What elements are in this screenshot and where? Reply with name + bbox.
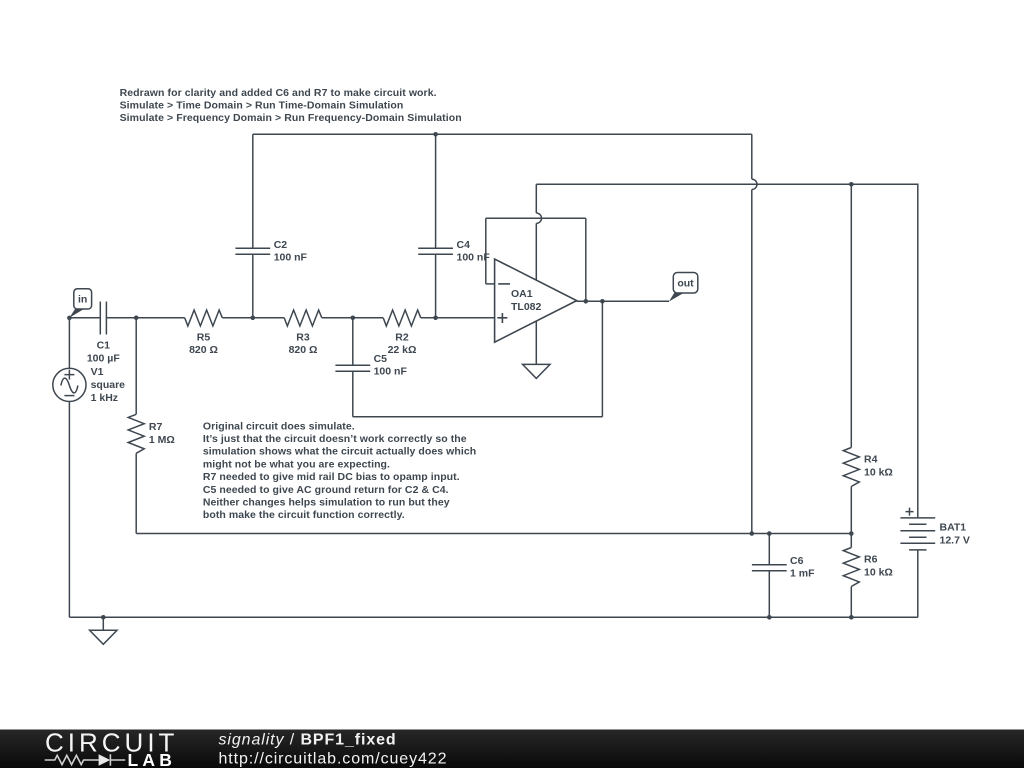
wire: C1 to R5 [106, 317, 184, 319]
wire: R4 to mid rail [850, 487, 852, 534]
svg-text:C1: C1 [97, 339, 111, 351]
svg-text:22 kΩ: 22 kΩ [388, 344, 417, 356]
svg-text:820 Ω: 820 Ω [289, 344, 318, 356]
junction R4 R6 mid rail [849, 531, 854, 536]
svg-text:out: out [677, 277, 694, 289]
svg-text:100 nF: 100 nF [374, 365, 408, 377]
svg-text:Simulate > Frequency Domain >: Simulate > Frequency Domain > Run Freque… [120, 112, 462, 124]
resistor R7 [128, 414, 144, 453]
junction C4 branch [433, 316, 438, 321]
svg-text:Neither changes helps simulati: Neither changes helps simulation to run … [203, 497, 450, 509]
svg-text:BAT1: BAT1 [940, 522, 967, 534]
resistor R5 [185, 310, 223, 326]
resistor R3 [284, 310, 322, 326]
svg-text:1 MΩ: 1 MΩ [149, 434, 175, 446]
svg-text:1 mF: 1 mF [790, 568, 815, 580]
svg-text:in: in [78, 294, 87, 306]
wire: R6 from mid rail [850, 534, 852, 548]
svg-text:R4: R4 [864, 454, 878, 466]
capacitor C5 [335, 365, 370, 371]
wire: C2 branch up [252, 254, 254, 317]
svg-text:TL082: TL082 [511, 301, 542, 313]
wire: R3 to R2 [322, 317, 383, 319]
wire: battery to bottom rail [917, 550, 919, 617]
wire: R6 to bottom rail [850, 587, 852, 618]
svg-text:R5: R5 [197, 332, 211, 344]
wire: C6 to bottom rail [768, 571, 770, 618]
wire: top rail [253, 133, 752, 135]
junction R4 supply rail [849, 182, 854, 187]
wire: mid rail [136, 533, 851, 535]
svg-text:C5: C5 [374, 353, 388, 365]
wire: C5 down to return run [352, 371, 354, 417]
junction ground bottom rail [101, 615, 106, 620]
footer bar [0, 730, 1024, 768]
junction C5 branch [351, 316, 356, 321]
ground below op-amp [523, 364, 550, 378]
wire: supply rail down to battery [917, 184, 919, 518]
wire: C6 branch down [768, 534, 770, 565]
wire: V1 to bottom rail [68, 402, 70, 618]
capacitor C2 [235, 248, 270, 254]
svg-text:100 µF: 100 µF [87, 353, 120, 365]
svg-text:Simulate > Time Domain > Run T: Simulate > Time Domain > Run Time-Domain… [120, 100, 404, 112]
voltage source V1 [53, 368, 86, 401]
junction feedback output [584, 299, 589, 304]
wire: R7 branch from main wire [135, 318, 137, 415]
wire: feedback left vertical [485, 218, 487, 284]
node flag out [669, 273, 698, 302]
resistor R6 [843, 548, 859, 587]
capacitor C4 [418, 248, 453, 254]
wire: C4 branch up [435, 254, 437, 317]
svg-text:10 kΩ: 10 kΩ [864, 566, 893, 578]
svg-text:Redrawn for clarity and added: Redrawn for clarity and added C6 and R7 … [120, 87, 437, 99]
wire: feedback top horizontal [486, 217, 586, 219]
svg-text:LAB: LAB [128, 750, 177, 768]
svg-text:R7 needed to give mid rail DC: R7 needed to give mid rail DC bias to op… [203, 471, 460, 483]
svg-text:Original circuit does simulate: Original circuit does simulate. [203, 420, 355, 432]
resistor R2 [383, 310, 421, 326]
wire: C4 to top rail [435, 134, 437, 248]
junction C4 top rail [433, 132, 438, 137]
svg-text:OA1: OA1 [511, 288, 533, 300]
svg-text:simulation shows what the circ: simulation shows what the circuit actual… [203, 446, 476, 458]
wire: R5 to R3 [222, 317, 284, 319]
wire: op-amp output [577, 300, 669, 302]
svg-text:C2: C2 [274, 239, 288, 251]
svg-text:10 kΩ: 10 kΩ [864, 466, 893, 478]
svg-text:820 Ω: 820 Ω [189, 344, 218, 356]
svg-text:12.7 V: 12.7 V [940, 534, 970, 546]
svg-text:R3: R3 [296, 332, 310, 344]
node flag in [69, 289, 91, 318]
svg-text:1 kHz: 1 kHz [91, 392, 118, 404]
svg-text:C5 needed to give AC ground re: C5 needed to give AC ground return for C… [203, 484, 449, 496]
svg-text:C6: C6 [790, 555, 804, 567]
wire: R2 to op-amp + input [421, 317, 495, 319]
svg-text:100 nF: 100 nF [457, 252, 491, 264]
wire: op-amp V+ pin with hop over feedback [536, 184, 541, 280]
op-amp OA1 [495, 259, 577, 342]
wire: feedback right vertical to output [585, 218, 587, 301]
junction C6 mid rail [767, 531, 772, 536]
ground at bottom rail [90, 617, 117, 644]
node in junction dot [67, 316, 72, 321]
svg-text:C4: C4 [457, 239, 471, 251]
wire: top rail down right side with hop over supply rail [752, 134, 757, 533]
junction C6 bottom rail [767, 615, 772, 620]
junction R7 branch [134, 316, 139, 321]
svg-text:R7: R7 [149, 421, 163, 433]
svg-text:R2: R2 [395, 332, 409, 344]
battery BAT1 [900, 508, 935, 550]
svg-text:both make the circuit function: both make the circuit function correctly… [203, 509, 405, 521]
logo diode [99, 754, 126, 766]
junction top rail mid rail [750, 531, 755, 536]
junction C2 branch [251, 316, 256, 321]
wire: in node to C1 [69, 317, 100, 319]
svg-text:It’s just that the circuit doe: It’s just that the circuit doesn’t work … [203, 433, 467, 445]
svg-text:http://circuitlab.com/cuey422: http://circuitlab.com/cuey422 [219, 751, 448, 768]
junction R6 bottom rail [849, 615, 854, 620]
svg-text:might not be what you are expe: might not be what you are expecting. [203, 458, 390, 470]
wire: R7 to mid rail [135, 453, 137, 533]
wire: C5 return up to output [601, 301, 603, 417]
wire: C5 branch down [352, 318, 354, 366]
capacitor C1 [100, 302, 106, 335]
wire: R4 from supply rail [850, 184, 852, 447]
svg-text:signality / BPF1_fixed: signality / BPF1_fixed [219, 732, 397, 749]
logo resistor [45, 755, 99, 764]
capacitor C6 [752, 565, 787, 571]
svg-text:square: square [91, 379, 126, 391]
wire: C5 return horizontal [353, 416, 603, 418]
svg-text:V1: V1 [91, 366, 104, 378]
junction C5 return output [600, 299, 605, 304]
resistor R4 [843, 448, 859, 487]
wire: bottom rail [69, 616, 917, 618]
wire: C2 to top rail [252, 134, 254, 248]
svg-text:R6: R6 [864, 554, 878, 566]
wire: - input stub [486, 283, 495, 285]
svg-text:100 nF: 100 nF [274, 252, 308, 264]
wire: node in down to V1 [68, 318, 70, 369]
wire: op-amp V- pin down [535, 321, 537, 364]
wire: supply rail from op-amp V+ to battery [536, 183, 918, 185]
